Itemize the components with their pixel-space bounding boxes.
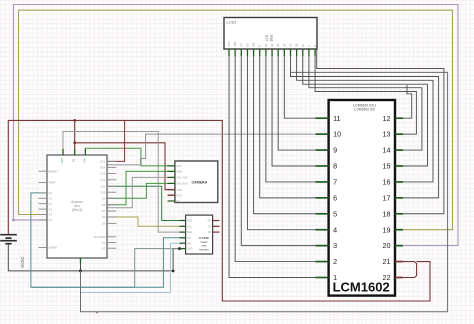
svg-text:17: 17: [383, 193, 391, 202]
pin heart-rate GND: [180, 248, 186, 250]
svg-text:D6: D6: [102, 215, 106, 219]
pin Arduino right D13: [107, 172, 116, 174]
wire ground rail: battery - down, across y=270.9: [8, 244, 173, 271]
pin camera RXD: [168, 194, 175, 196]
svg-text:D3: D3: [276, 43, 280, 47]
svg-text:OW_TXD: OW_TXD: [176, 176, 187, 180]
pin LCD 11: [289, 49, 291, 56]
svg-text:RXD: RXD: [176, 193, 182, 197]
pin LCD 1: [228, 49, 230, 56]
pin LCD 8: [271, 49, 273, 56]
svg-text:VDD: VDD: [233, 41, 237, 47]
svg-text:LCD1: LCD1: [227, 20, 238, 25]
svg-text:IOREF: IOREF: [49, 246, 58, 250]
pin Arduino left IOREF: [39, 247, 48, 249]
wire hook inner to LCM pin 12: [403, 85, 412, 118]
wire LCD col hook to LCM right pin at y=166: [303, 56, 428, 166]
svg-text:9VDC: 9VDC: [20, 256, 25, 267]
pin Arduino left AREF: [39, 181, 48, 183]
pin heart-rate IRD: [180, 242, 186, 244]
svg-text:K: K: [313, 45, 317, 47]
pin Arduino right D7: [107, 210, 116, 212]
heart rate module U4 box: [186, 215, 213, 254]
pin LCM 8: [316, 165, 329, 167]
pin LCM 2: [316, 261, 329, 263]
svg-text:SDA: SDA: [187, 231, 192, 234]
pin LCD 6: [259, 49, 261, 56]
pin heart-rate right 2: [213, 225, 220, 227]
svg-text:5: 5: [333, 209, 337, 218]
svg-text:D6: D6: [295, 43, 299, 47]
junction ground at (179.5,248.6): [178, 247, 181, 250]
pin Arduino left A5: [39, 219, 48, 221]
wire LCD col 7 to LCM pin 7: [266, 56, 316, 182]
svg-text:A: A: [307, 45, 311, 47]
svg-text:RD: RD: [208, 220, 212, 223]
svg-text:D5: D5: [288, 43, 292, 47]
svg-text:13: 13: [383, 130, 391, 139]
wire LCD col 5 to LCM pin 5: [254, 56, 316, 214]
pin Arduino left A2: [39, 203, 48, 205]
wire green: camera OW_RXD to Arduino right pin: [107, 183, 175, 198]
pin LCM 10: [316, 133, 329, 135]
wire ground vertical overdraw x=80.5: [80, 271, 82, 312]
pin camera IO: [168, 200, 175, 202]
pin Arduino right D12: [107, 179, 116, 181]
svg-text:3V3: 3V3: [60, 158, 64, 163]
pin camera VCC: [168, 165, 175, 167]
pin LCM 3: [316, 245, 329, 247]
wire green: Arduino top pin 3 up over to camera VCC: [85, 148, 174, 166]
pin LCM 18: [395, 213, 403, 215]
pin LCM 1: [316, 277, 329, 279]
svg-text:OW_RXD: OW_RXD: [176, 182, 188, 186]
svg-text:monitor: monitor: [199, 247, 209, 251]
wire LCD col hook to LCM right pin at y=150: [309, 56, 422, 150]
svg-text:A4: A4: [49, 213, 53, 217]
svg-text:SCL: SCL: [100, 160, 106, 164]
svg-text:A0: A0: [49, 191, 53, 195]
wire olive border loop: top edge, left side into Arduino pin: [19, 10, 453, 230]
svg-text:6: 6: [333, 193, 337, 202]
pin LCD 7: [265, 49, 267, 56]
pin LCD 12: [296, 49, 298, 56]
svg-text:RS: RS: [245, 43, 249, 47]
svg-text:D7: D7: [301, 43, 305, 47]
pin LCM 20: [395, 245, 403, 247]
wire gray: camera OW_TXD to Arduino right pin: [107, 177, 175, 207]
pin Arduino right D11: [107, 185, 116, 187]
pin Arduino top 3V3: [62, 149, 64, 155]
pin LCD 5: [253, 49, 255, 56]
LCM1602 I2C module U5 box: [329, 100, 395, 296]
junction ground at (173.1,270.9): [172, 270, 175, 273]
svg-text:D9: D9: [102, 197, 106, 201]
pin LCM 6: [316, 197, 329, 199]
svg-text:D2: D2: [270, 43, 274, 47]
wire maroon branch from (74.7,142.8) to camera pin 5: [75, 143, 175, 190]
pin heart-rate VDD: [180, 220, 186, 222]
pin LCD 10: [283, 49, 285, 56]
svg-text:A2: A2: [49, 202, 53, 206]
pin LCD 13: [302, 49, 304, 56]
svg-text:VO: VO: [239, 43, 243, 47]
camera module U3 box: [175, 161, 218, 203]
svg-text:RESET: RESET: [49, 169, 59, 173]
battery BT1 9V: [0, 234, 17, 236]
svg-text:GND: GND: [176, 170, 182, 174]
pin Arduino left A4: [39, 214, 48, 216]
svg-text:D12: D12: [100, 178, 106, 182]
wire ground: down from junction to bottom rail y=315.6 across to x=447.6 up to hook bundle: [81, 271, 448, 312]
pin heart-rate right 3: [213, 231, 220, 233]
svg-text:D5: D5: [102, 222, 106, 226]
wire maroon branch down to Arduino VIN top pin: [74, 120, 76, 149]
svg-text:SDA: SDA: [100, 166, 106, 170]
pin Arduino left A3: [39, 208, 48, 210]
pin LCM 22: [395, 277, 403, 279]
pin heart-rate INT: [180, 237, 186, 239]
svg-text:19: 19: [383, 225, 391, 234]
pin LCD 3: [240, 49, 242, 56]
pin Arduino right D9: [107, 197, 116, 199]
pin LCD 9: [277, 49, 279, 56]
svg-text:LCD: LCD: [265, 34, 269, 41]
pin Arduino right D3: [107, 242, 116, 244]
svg-text:3: 3: [333, 241, 337, 250]
pin LCD 2: [234, 49, 236, 56]
pin Arduino right SCL: [107, 160, 116, 162]
pin camera TXD: [168, 189, 175, 191]
svg-text:IO: IO: [176, 199, 179, 203]
svg-text:RW: RW: [252, 42, 256, 47]
net label tick on bottom rail: [96, 312, 98, 314]
pin heart-rate SCL: [180, 225, 186, 227]
Arduino Uno U2 box: [47, 155, 107, 258]
pin LCD 15: [314, 49, 316, 56]
svg-text:A3: A3: [49, 207, 53, 211]
svg-text:21: 21: [383, 257, 391, 266]
pin Arduino right D8: [107, 204, 116, 206]
wire LCD col 2 to LCM pin 2: [235, 56, 315, 262]
pin Arduino right D10: [107, 191, 116, 193]
svg-text:TXD: TXD: [176, 188, 181, 192]
wire LCD col 9 to LCM pin 9: [278, 56, 315, 150]
svg-text:D2: D2: [102, 246, 106, 250]
pin Arduino bottom GND: [80, 258, 82, 264]
svg-text:VCC: VCC: [176, 164, 182, 168]
svg-text:15: 15: [383, 162, 391, 171]
junction maroon at (74.7,120.4): [73, 119, 76, 122]
svg-text:IRD: IRD: [187, 242, 192, 245]
pin camera OW_RXD: [168, 182, 175, 184]
LCD display U1 box: [224, 18, 317, 50]
svg-text:2: 2: [333, 257, 337, 266]
wire LCD col 6 to LCM pin 6: [260, 56, 316, 198]
svg-text:14: 14: [383, 146, 391, 155]
wire ground: up from rail at x=173.1 to heart-rate module GND: [173, 249, 186, 271]
pin LCM 7: [316, 181, 329, 183]
svg-text:20: 20: [383, 241, 391, 250]
wire maroon stub camera pin 6: [168, 194, 175, 196]
wire ground: Arduino GND bottom pin down to rail: [80, 263, 82, 271]
svg-text:TX: TX: [208, 225, 212, 228]
wire LCD col 10 to LCM pin 11: [284, 56, 315, 118]
junction purple at (13.4,219.9): [12, 219, 15, 222]
svg-text:A5: A5: [49, 218, 53, 222]
svg-text:SCL: SCL: [187, 225, 192, 228]
pin LCM 15: [395, 165, 403, 167]
svg-text:A1: A1: [49, 197, 53, 201]
svg-text:D1: D1: [264, 43, 268, 47]
pin LCM 4: [316, 229, 329, 231]
svg-text:D3: D3: [102, 241, 106, 245]
pin LCM 13: [395, 133, 403, 135]
pin LCM 17: [395, 197, 403, 199]
svg-text:7: 7: [333, 178, 337, 187]
wire maroon power rail: battery + up, across y=120.4, down right side of middle, to LCM pin21: [8, 120, 430, 301]
wire LCD col hook to LCM right pin at y=134: [315, 56, 416, 134]
pin Arduino right D2: [107, 247, 116, 249]
svg-text:11: 11: [333, 114, 340, 123]
wire hook outer to LCM pin 18: [317, 49, 444, 214]
svg-text:AREF: AREF: [49, 181, 57, 185]
pin LCM 5: [316, 213, 329, 215]
svg-text:9: 9: [333, 146, 337, 155]
svg-text:CAMERA: CAMERA: [191, 181, 207, 185]
wire maroon U-link LCM pin21 to pin22: [403, 262, 417, 278]
wire dark green: Arduino right pin to heart-rate module pin 1 (VDD): [107, 186, 186, 220]
svg-text:LCM1602 I2C: LCM1602 I2C: [354, 108, 375, 112]
svg-text:E: E: [258, 45, 262, 47]
pin heart-rate right 1: [213, 220, 220, 222]
svg-text:VIN: VIN: [82, 158, 86, 162]
svg-text:12: 12: [383, 114, 391, 123]
wire maroon: Arduino right pin up at x=124.6 to power rail: [107, 120, 125, 161]
wire olive: Arduino right pin to heart-rate module pin 2: [107, 217, 186, 226]
junction maroon at (74.7,142.8): [73, 141, 76, 144]
pin LCD 4: [246, 49, 248, 56]
svg-text:D13: D13: [100, 172, 106, 176]
pin LCM 11: [316, 117, 329, 119]
svg-text:RX: RX: [208, 231, 212, 234]
svg-text:D10: D10: [100, 190, 106, 194]
wire purple border loop left: top edge, left side into Arduino pin: [13, 5, 458, 246]
pin Arduino left A1: [39, 197, 48, 199]
svg-text:VDD: VDD: [187, 220, 192, 223]
wire ground spur left from module GND junction: [31, 249, 180, 288]
svg-text:D4: D4: [282, 43, 286, 47]
pin Arduino top VIN: [84, 149, 86, 155]
svg-text:5V: 5V: [72, 159, 76, 162]
pin Arduino right SDA: [107, 166, 116, 168]
pin heart-rate SDA: [180, 231, 186, 233]
svg-text:VSS: VSS: [227, 42, 231, 47]
wire ground long vertical right side x=447.6 from hook row to bottom rail: [291, 72, 448, 311]
wire gray: Arduino top pin 1 up over to heart-rate module pin 3: [63, 132, 186, 233]
wire green: camera GND down to Arduino right pin: [107, 171, 175, 204]
pin LCM 19: [395, 229, 403, 231]
wire LCD col 3 to LCM pin 3: [241, 56, 315, 246]
wire LCD col 1 to LCM pin 1: [229, 56, 316, 278]
pin LCM 16: [395, 181, 403, 183]
wire light blue: from ground junction area along y=292.5 up into heart-rate module pin 5: [81, 243, 186, 292]
svg-text:16x2: 16x2: [270, 34, 274, 41]
wire LCD col 8 to LCM pin 8: [272, 56, 315, 166]
svg-text:4: 4: [333, 225, 337, 234]
pin Arduino right D4 PWM: [107, 236, 116, 238]
pin camera GND: [168, 170, 175, 172]
svg-text:D4 PWM: D4 PWM: [94, 235, 106, 239]
wire LCD col hook to LCM right pin at y=198: [290, 56, 438, 198]
wire gray-purple: Arduino right pin across to LCM pin 10: [107, 134, 316, 165]
pin camera OW_TXD: [168, 176, 175, 178]
wire teal: Arduino left pin y=192.9 down left side, along y=287.3, up into heart-rate module pin 4: [31, 193, 186, 287]
pin LCM 9: [316, 149, 329, 151]
pin LCM 21: [395, 261, 403, 263]
pin Arduino left A0: [39, 192, 48, 194]
pin Arduino top 5V: [74, 149, 76, 155]
junction ground at (80.5,270.9): [79, 269, 82, 272]
wire LCD col hook to LCM right pin at y=182: [297, 56, 433, 182]
pin Arduino right D6: [107, 216, 116, 218]
pin LCM 14: [395, 149, 403, 151]
pin Arduino right D5: [107, 222, 116, 224]
pin LCD 14: [308, 49, 310, 56]
pin LCM 12: [395, 117, 403, 119]
svg-text:D8: D8: [102, 203, 106, 207]
svg-text:D11: D11: [101, 184, 106, 188]
svg-text:18: 18: [383, 209, 391, 218]
svg-text:(Rev3): (Rev3): [72, 208, 82, 212]
svg-text:10: 10: [333, 130, 341, 139]
svg-text:16: 16: [383, 178, 391, 187]
svg-text:8: 8: [333, 162, 337, 171]
wire LCD col 4 to LCM pin 4: [247, 56, 315, 230]
svg-text:INT: INT: [187, 237, 192, 240]
svg-text:D7: D7: [102, 209, 106, 213]
svg-text:GND: GND: [187, 248, 193, 251]
pin Arduino left RESET: [39, 170, 48, 172]
svg-text:LCM1602: LCM1602: [333, 280, 390, 295]
